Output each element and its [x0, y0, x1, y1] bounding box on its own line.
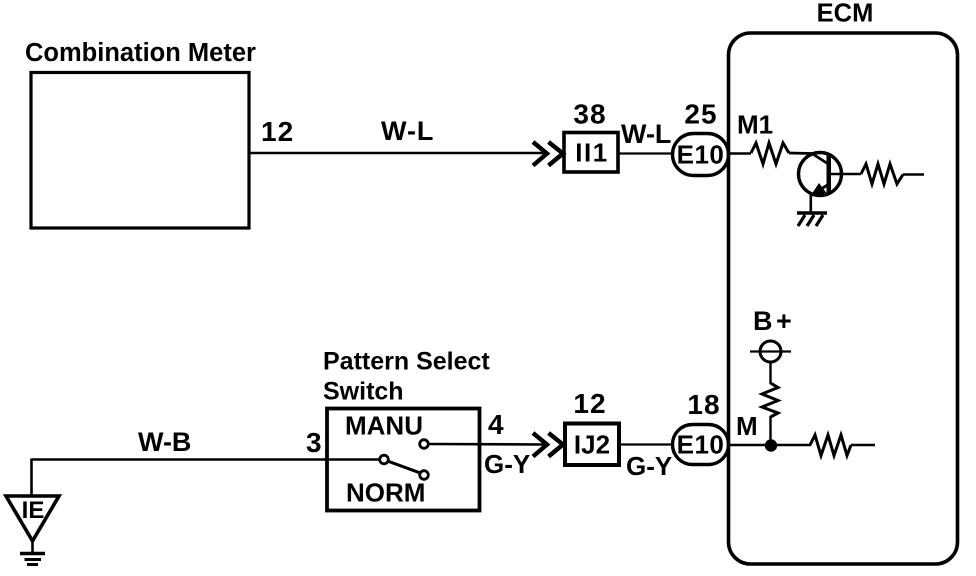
connector E10 pin 25	[673, 134, 729, 176]
svg-text:II1: II1	[575, 138, 608, 168]
switch common contact (pin 3)	[380, 455, 389, 464]
wire ECM pin 25 to resistor	[729, 152, 751, 155]
svg-text:E10: E10	[677, 430, 725, 460]
ground (ECM internal, body ground)	[797, 213, 827, 226]
svg-text:M1: M1	[737, 110, 773, 140]
resistor (pull-up to B+)	[762, 383, 778, 417]
connector II1	[564, 133, 618, 173]
wire base resistor stub	[903, 173, 924, 175]
svg-text:W-L: W-L	[621, 119, 671, 149]
svg-text:M: M	[736, 411, 758, 441]
ground IE (triangle body ground)	[6, 496, 59, 565]
connector IJ2	[565, 424, 619, 466]
svg-text:W-L: W-L	[381, 116, 434, 146]
wire transistor emitter to ground	[809, 195, 812, 213]
svg-text:G-Y: G-Y	[484, 449, 530, 479]
resistor (base)	[861, 164, 903, 184]
svg-text:25: 25	[684, 99, 717, 130]
switch MANU contact (pin 4)	[420, 440, 429, 449]
B+ terminal symbol	[750, 341, 791, 362]
wire W-B ground to switch pin 3	[32, 459, 380, 497]
pattern select switch box	[327, 409, 480, 511]
svg-text:W-B: W-B	[138, 427, 191, 457]
wire transistor base	[831, 173, 861, 176]
svg-text:Switch: Switch	[323, 378, 404, 406]
svg-text:G-Y: G-Y	[626, 451, 672, 481]
svg-text:B+: B+	[753, 306, 795, 336]
wire resistor stub	[851, 444, 875, 446]
svg-text:38: 38	[573, 99, 606, 130]
wire B+ to resistor	[769, 362, 771, 384]
ECM box	[729, 33, 958, 564]
junction node	[765, 439, 777, 451]
svg-text:18: 18	[687, 389, 720, 420]
svg-text:ECM: ECM	[817, 0, 874, 28]
svg-text:12: 12	[261, 116, 294, 147]
Pattern Select Switch label	[323, 348, 490, 406]
wire IJ2 to E10 (G-Y)	[619, 443, 673, 445]
svg-text:NORM: NORM	[346, 478, 425, 508]
wire resistor to transistor collector	[789, 153, 828, 164]
svg-text:E10: E10	[677, 140, 725, 170]
svg-text:3: 3	[306, 427, 322, 458]
transistor Q1	[799, 153, 842, 197]
svg-text:Pattern Select: Pattern Select	[323, 348, 490, 376]
wire ECM pin 18 to resistor	[729, 444, 811, 447]
connector E10 pin 18	[673, 425, 729, 465]
wire II1 to E10 (W-L)	[618, 152, 673, 154]
wire resistor to junction node	[769, 416, 771, 442]
svg-text:4: 4	[488, 409, 504, 440]
svg-text:IJ2: IJ2	[574, 430, 610, 460]
wire switch pin 4 (G-Y)	[429, 443, 545, 446]
switch lever (in NORM position)	[388, 461, 420, 473]
resistor (collector, M1 line)	[751, 143, 789, 164]
svg-text:IE: IE	[22, 497, 45, 524]
svg-text:Combination Meter: Combination Meter	[25, 39, 256, 67]
splice arrows into IJ2	[533, 433, 563, 457]
wire W-L from Combination Meter pin 12	[249, 152, 544, 155]
resistor (pull-down line)	[810, 435, 851, 456]
svg-text:12: 12	[573, 388, 606, 419]
splice arrows into II1	[533, 142, 563, 166]
combination meter box	[31, 73, 249, 229]
switch NORM contact	[420, 471, 429, 480]
svg-text:MANU: MANU	[345, 411, 423, 441]
